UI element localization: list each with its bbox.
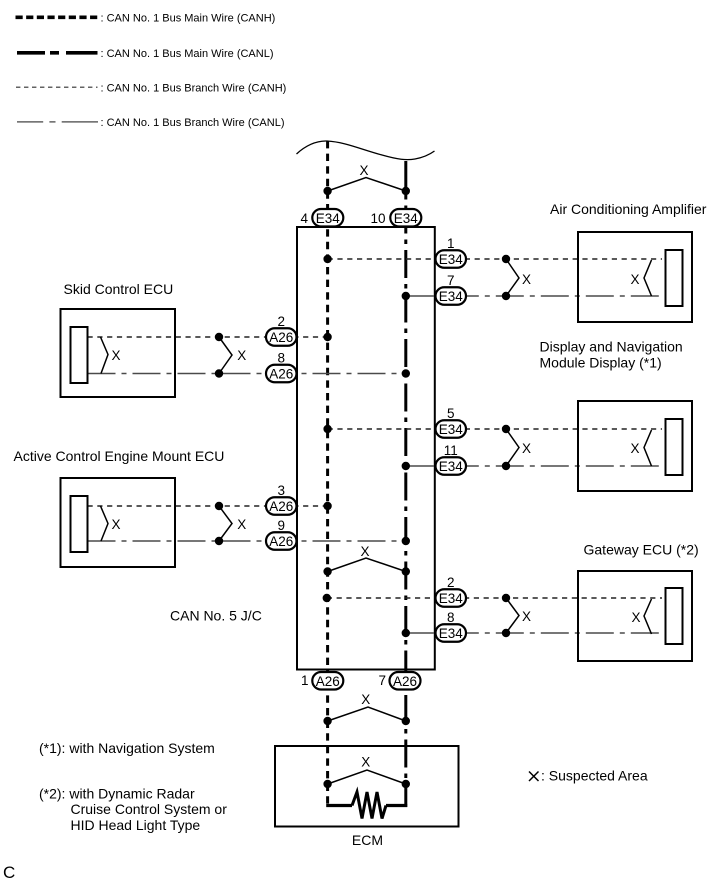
svg-text:X: X [111, 517, 120, 532]
branch wire CANH to pin1 E34 (Air Conditioning Amplifier) [328, 258, 662, 260]
svg-text:Cruise Control System or: Cruise Control System or [71, 801, 228, 817]
junction dot CANH y337 [323, 333, 331, 341]
wavy break line at top [297, 141, 435, 160]
junction dot CANH y784 [323, 780, 331, 788]
svg-text:C: C [3, 863, 15, 882]
connector oval pin5 E34 (right edge, CANH to Display) [436, 406, 467, 438]
junction dot CANL y541 [402, 537, 410, 545]
branch wire CANL to pin8 E34 (Gateway ECU) [406, 632, 666, 634]
wire: CAN main bus CANL vertical (thick dash-dot) [404, 161, 407, 786]
svg-text:Gateway ECU (*2): Gateway ECU (*2) [584, 542, 699, 558]
dot on CANH branch y429 [502, 425, 510, 433]
svg-text:X: X [522, 272, 531, 287]
connector oval pin2 A26 (left edge, CANH to Skid ECU) [266, 314, 297, 346]
svg-text:X: X [237, 348, 246, 363]
svg-text:ECM: ECM [352, 832, 383, 848]
connector oval pin8 E34 (right edge, CANL to Gateway) [436, 610, 467, 642]
Display and Navigation Module Display box [578, 401, 692, 491]
svg-text:1: 1 [447, 236, 455, 251]
footnote *2 [39, 786, 227, 834]
junction dot CANH y598 [323, 594, 331, 602]
svg-text:(*1): with Navigation System: (*1): with Navigation System [39, 740, 215, 756]
legend: X Suspected Area [529, 768, 648, 784]
CAN No.5 junction connector box [297, 227, 435, 670]
connector oval pin7 E34 (right edge, CANL to A/C amp) [436, 273, 467, 305]
svg-text:X: X [111, 348, 120, 363]
wire: CANL solid segment into ECM resistor [404, 784, 407, 807]
junction dot CANH y571.5 [323, 567, 331, 575]
junction dot CANH y259 [323, 255, 331, 263]
svg-text:E34: E34 [439, 252, 464, 267]
svg-text:E34: E34 [316, 211, 341, 226]
Air Conditioning Amplifier box [578, 232, 692, 322]
svg-text:Module Display (*1): Module Display (*1) [540, 355, 662, 371]
branch wire CANH from Active Control Engine Mount ECU pin3 A26 [88, 505, 328, 507]
junction dot CANL y296 [402, 292, 410, 300]
dot on CANL branch y466 [502, 462, 510, 470]
suspected area marker inside Active ECU [101, 506, 121, 541]
Skid Control ECU box [61, 309, 176, 397]
connector oval pin1 E34 (right edge, CANH to A/C amp) [436, 236, 467, 268]
svg-text:11: 11 [444, 443, 458, 458]
svg-text:2: 2 [277, 314, 285, 329]
svg-text:E34: E34 [439, 459, 464, 474]
svg-text:E34: E34 [439, 422, 464, 437]
svg-text:A26: A26 [316, 674, 340, 689]
branch wire CANH from Skid Control ECU pin2 A26 [88, 336, 328, 338]
suspected area marker inside Skid ECU [101, 337, 121, 374]
junction dot CANL y721 [402, 717, 410, 725]
connector oval 10 E34 (top right of J/C) [370, 209, 421, 227]
suspected area marker inside Display [630, 430, 651, 466]
dot on CANL branch y633 [502, 629, 510, 637]
svg-text:A26: A26 [269, 330, 293, 345]
svg-text:5: 5 [447, 406, 455, 421]
svg-text:HID Head Light Type: HID Head Light Type [71, 817, 201, 833]
junction dot CANL y466 [402, 462, 410, 470]
dot on CANL branch y373.5 [215, 369, 223, 377]
suspected area marker above junction box [328, 163, 406, 191]
svg-text:Air Conditioning Amplifier: Air Conditioning Amplifier [550, 201, 707, 217]
connector oval pin9 A26 (left edge, CANL to Active ECU) [266, 518, 297, 550]
connector oval pin2 E34 (right edge, CANH to Gateway) [436, 575, 467, 607]
junction dot CANH y506 [323, 502, 331, 510]
connector oval 4 E34 (top left of J/C) [300, 209, 343, 227]
legend line: CAN No.1 Bus Main Wire CANH (thick dashed) [16, 12, 276, 24]
branch wire CANH to pin2 E34 (Gateway ECU) [327, 597, 662, 599]
svg-text:7: 7 [447, 273, 455, 288]
svg-text:X: X [361, 755, 370, 770]
dot on CANH branch y337 [215, 333, 223, 341]
svg-text:: Suspected Area: : Suspected Area [541, 768, 648, 784]
svg-text:E34: E34 [439, 289, 464, 304]
junction dot CANL y571.5 [402, 567, 410, 575]
branch wire CANL from Active Control Engine Mount ECU pin9 A26 [88, 540, 406, 542]
svg-text:2: 2 [447, 575, 455, 590]
legend line: CAN No.1 Bus Main Wire CANL (thick dash-dot) [17, 48, 273, 60]
svg-text:E34: E34 [439, 591, 464, 606]
suspected area marker on Skid ECU branch [219, 337, 246, 374]
legend line: CAN No.1 Bus Branch Wire CANL (thin dash-dot) [17, 117, 285, 129]
suspected area marker inside A/C amp [630, 260, 651, 296]
suspected area marker on Active ECU branch [219, 506, 246, 541]
ECM box [275, 746, 459, 827]
svg-text:3: 3 [277, 483, 285, 498]
branch wire CANH to pin5 E34 (Display and Navigation) [328, 428, 662, 430]
connector oval 7 A26 (bottom right of J/C) [378, 672, 420, 690]
branch wire CANL to pin11 E34 (Display and Navigation) [406, 465, 666, 467]
label Display and Navigation Module Display (*1) [540, 339, 683, 371]
Active Control Engine Mount ECU box [61, 478, 176, 567]
suspected area marker below junction box [328, 692, 406, 721]
svg-text:9: 9 [277, 518, 285, 533]
svg-text:X: X [522, 609, 531, 624]
dot on CANL branch y296 [502, 292, 510, 300]
svg-text:: CAN No. 1 Bus Branch Wire (C: : CAN No. 1 Bus Branch Wire (CANH) [101, 82, 287, 94]
legend line: CAN No.1 Bus Branch Wire CANH (thin dashed) [16, 82, 286, 94]
dot on CANH branch y598 [502, 594, 510, 602]
svg-text:8: 8 [277, 351, 285, 366]
svg-text:X: X [630, 441, 639, 456]
junction dot CANH y721 [323, 717, 331, 725]
svg-text:8: 8 [447, 610, 455, 625]
junction dot CANL y373.5 [402, 369, 410, 377]
svg-text:X: X [237, 517, 246, 532]
connector oval pin8 A26 (left edge, CANL to Skid ECU) [266, 351, 297, 383]
svg-text:E34: E34 [439, 626, 464, 641]
svg-text:Skid Control ECU: Skid Control ECU [64, 281, 174, 297]
svg-text:: CAN No. 1 Bus Main Wire (CAN: : CAN No. 1 Bus Main Wire (CANH) [101, 12, 276, 24]
svg-text:10: 10 [370, 211, 385, 226]
svg-text:X: X [359, 163, 368, 178]
connector oval pin3 A26 (left edge, CANH to Active ECU) [266, 483, 297, 515]
svg-text:4: 4 [300, 211, 308, 226]
svg-text:X: X [522, 441, 531, 456]
branch wire CANL from Skid Control ECU pin8 A26 [88, 373, 406, 375]
svg-text:1: 1 [301, 673, 309, 688]
svg-text:: CAN No. 1 Bus Main Wire (CAN: : CAN No. 1 Bus Main Wire (CANL) [101, 48, 274, 60]
svg-text:Active Control Engine Mount EC: Active Control Engine Mount ECU [14, 448, 225, 464]
suspected area marker on Gateway branch [506, 598, 531, 633]
suspected area marker on Display branch [506, 429, 531, 466]
svg-text:X: X [630, 272, 639, 287]
suspected area marker inside junction box [328, 544, 406, 572]
dot on CANH branch y259 [502, 255, 510, 263]
svg-text:A26: A26 [269, 367, 293, 382]
junction dot CANH y429 [323, 425, 331, 433]
svg-text:A26: A26 [269, 534, 293, 549]
connector oval pin11 E34 (right edge, CANL to Display) [436, 443, 467, 475]
connector oval 1 A26 (bottom left of J/C) [301, 672, 343, 690]
svg-text:7: 7 [378, 673, 386, 688]
dot on CANH branch y506 [215, 502, 223, 510]
junction dot on CANH at y191 [323, 187, 331, 195]
terminating resistor in ECM [326, 792, 407, 819]
suspected area marker inside Gateway [631, 599, 651, 634]
svg-text:A26: A26 [393, 674, 417, 689]
svg-text:: CAN No. 1 Bus Branch Wire (C: : CAN No. 1 Bus Branch Wire (CANL) [101, 117, 285, 129]
junction dot CANL y633 [402, 629, 410, 637]
suspected area marker on A/C amp branch [506, 259, 531, 296]
svg-text:E34: E34 [394, 211, 419, 226]
svg-text:X: X [360, 544, 369, 559]
branch wire CANL to pin7 E34 (Air Conditioning Amplifier) [406, 295, 666, 297]
Gateway ECU box [578, 571, 692, 661]
dot on CANL branch y541 [215, 537, 223, 545]
wire: CAN main bus CANH vertical (thick dashed) [326, 141, 329, 806]
junction dot CANL y784 [402, 780, 410, 788]
svg-text:A26: A26 [269, 499, 293, 514]
svg-text:X: X [361, 692, 370, 707]
svg-text:CAN No. 5 J/C: CAN No. 5 J/C [170, 608, 262, 624]
svg-text:(*2): with Dynamic Radar: (*2): with Dynamic Radar [39, 786, 195, 802]
svg-text:Display and Navigation: Display and Navigation [540, 339, 683, 355]
junction dot on CANL at y191 [402, 187, 410, 195]
svg-text:X: X [631, 610, 640, 625]
suspected area marker inside ECM [328, 755, 406, 785]
